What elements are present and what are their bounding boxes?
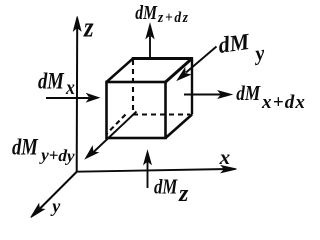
moment arrow dMy (into top right corner): [178, 47, 217, 81]
cube top-left edge: [107, 59, 134, 83]
svg-text:y+dy: y+dy: [39, 145, 75, 165]
moment arrow dMy+dy (out of hidden corner): [86, 112, 137, 159]
cube hidden bottom-left edge (dashed): [106, 115, 126, 135]
moment arrow dMx+dx: [184, 91, 232, 98]
svg-text:z: z: [83, 10, 94, 42]
svg-text:x+dx: x+dx: [261, 92, 306, 113]
cube bottom-right edge: [166, 115, 193, 139]
svg-text:dM: dM: [217, 28, 252, 58]
moment arrow dMz (bottom, pointing up): [144, 151, 151, 188]
svg-text:dM: dM: [154, 176, 178, 199]
svg-text:y: y: [50, 196, 61, 216]
y-axis: [31, 172, 77, 217]
cube hidden back-bottom edge (dashed): [133, 113, 190, 115]
svg-text:x: x: [65, 77, 75, 100]
svg-text:dM: dM: [236, 82, 261, 105]
moment arrow dMx: [46, 94, 99, 102]
svg-text:dM: dM: [12, 134, 39, 160]
svg-text:z: z: [178, 181, 189, 207]
z-axis: [74, 17, 81, 173]
cube hidden back-left edge (dashed): [132, 60, 134, 115]
cube top-right edge: [166, 59, 193, 83]
cube front face: [107, 82, 166, 138]
cube back-right edge: [191, 58, 193, 115]
svg-text:dM: dM: [135, 1, 158, 23]
svg-text:y: y: [251, 42, 267, 66]
svg-text:dM: dM: [38, 67, 65, 93]
cube back-top edge: [132, 57, 193, 60]
svg-text:x: x: [219, 145, 231, 169]
x-axis: [77, 166, 237, 173]
svg-text:z+dz: z+dz: [157, 9, 190, 26]
moment arrow dMz+dz (top, pointing up): [146, 24, 154, 57]
